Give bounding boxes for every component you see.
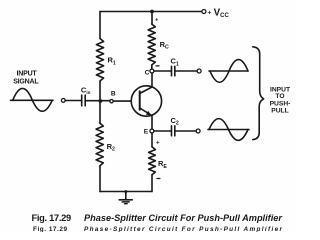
svg-text:C: C [145,69,150,76]
svg-text:Cin: Cin [81,85,91,95]
svg-text:PUSH-: PUSH- [270,100,291,107]
svg-text:+: + [156,141,160,147]
svg-text:+: + [208,9,212,16]
svg-text:SIGNAL: SIGNAL [13,79,39,86]
svg-text:R2: R2 [107,142,115,153]
svg-text:Fig. 17.29: Fig. 17.29 [32,213,72,223]
svg-text:PULL: PULL [271,107,288,114]
svg-text:RE: RE [158,159,167,170]
svg-text:E: E [144,129,149,136]
svg-text:Phase-Splitter Circuit For Pus: Phase-Splitter Circuit For Push-Pull Amp… [84,213,283,223]
svg-text:B: B [111,91,116,98]
svg-text:Fig. 17.29: Fig. 17.29 [33,226,67,232]
svg-text:VCC: VCC [214,7,230,19]
svg-text:Phase-Splitter Circuit For Pus: Phase-Splitter Circuit For Push-Pull Amp… [84,226,283,232]
svg-text:INPUT: INPUT [17,70,38,77]
svg-text:+: + [155,18,158,24]
svg-text:TO: TO [275,93,284,100]
svg-text:R1: R1 [108,56,116,67]
svg-text:RC: RC [160,40,169,51]
